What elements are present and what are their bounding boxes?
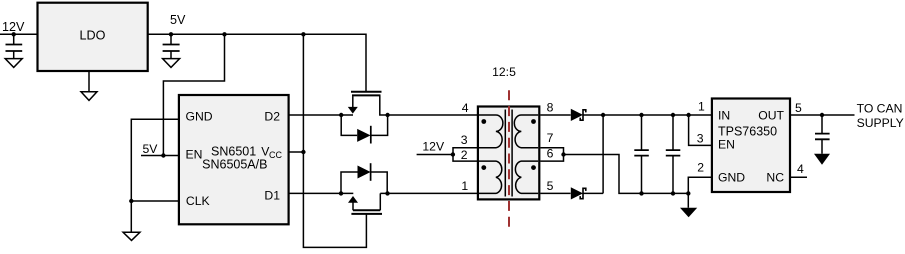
svg-text:SN6501: SN6501 — [211, 144, 256, 158]
svg-text:12V: 12V — [422, 140, 445, 154]
svg-text:SUPPLY: SUPPLY — [857, 116, 904, 130]
svg-text:7: 7 — [547, 131, 554, 145]
svg-text:GND: GND — [718, 171, 745, 185]
svg-text:2: 2 — [461, 148, 468, 162]
svg-text:2: 2 — [697, 161, 704, 175]
svg-text:D2: D2 — [264, 110, 280, 124]
svg-text:TPS76350: TPS76350 — [718, 125, 777, 139]
svg-text:OUT: OUT — [758, 109, 784, 123]
svg-text:8: 8 — [547, 100, 554, 114]
svg-text:5: 5 — [547, 179, 554, 193]
svg-text:5V: 5V — [170, 13, 186, 27]
svg-text:5V: 5V — [143, 142, 159, 156]
svg-text:5: 5 — [795, 101, 802, 115]
svg-text:1: 1 — [461, 179, 468, 193]
svg-text:12:5: 12:5 — [492, 65, 516, 79]
svg-text:D1: D1 — [264, 189, 280, 203]
svg-text:NC: NC — [766, 171, 784, 185]
svg-text:EN: EN — [186, 148, 203, 162]
svg-text:1: 1 — [698, 99, 705, 113]
svg-text:TO CAN: TO CAN — [857, 102, 903, 116]
svg-text:CLK: CLK — [186, 194, 210, 208]
svg-text:SN6505A/B: SN6505A/B — [202, 157, 267, 171]
svg-text:6: 6 — [547, 147, 554, 161]
svg-text:12V: 12V — [2, 20, 25, 34]
svg-text:IN: IN — [718, 109, 730, 123]
svg-text:EN: EN — [718, 138, 735, 152]
svg-text:3: 3 — [697, 132, 704, 146]
svg-text:CC: CC — [269, 150, 282, 160]
svg-text:LDO: LDO — [80, 29, 106, 43]
svg-text:GND: GND — [186, 110, 213, 124]
svg-text:4: 4 — [462, 101, 469, 115]
svg-text:4: 4 — [797, 162, 804, 176]
svg-text:3: 3 — [461, 133, 468, 147]
